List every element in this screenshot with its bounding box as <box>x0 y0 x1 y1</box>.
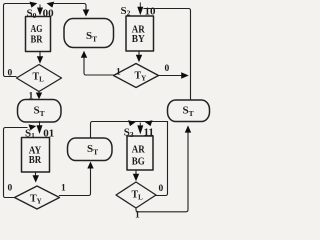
svg-text:11: 11 <box>144 127 154 139</box>
node: S0 state entry arrow <box>39 5 41 8</box>
wire: arrowhead into S0 entry (from left loop) <box>30 2 38 8</box>
wire: TL=1 down into conditional output <box>38 92 40 94</box>
wire: TY=1 right then up into bottom-middle ST <box>60 168 91 196</box>
conditional output box ST (right) <box>168 100 210 122</box>
wire: bottom-middle ST up and right to S3 entry <box>91 122 168 139</box>
node: S3 state entry arrow <box>139 123 141 126</box>
svg-text:1: 1 <box>116 68 121 78</box>
wire: top horizontal from S0 header to top-middle conditional box <box>53 4 87 11</box>
svg-text:1: 1 <box>29 92 34 102</box>
svg-text:BG: BG <box>132 156 145 168</box>
wire: S1 to TY decision <box>35 172 37 176</box>
decision diamond TL (top-left) <box>17 65 62 92</box>
decision diamond TL (bottom-right) <box>116 182 156 208</box>
svg-text:1: 1 <box>135 211 140 221</box>
node: S2 state entry arrow <box>139 3 141 7</box>
conditional output box ST (left) <box>18 100 62 123</box>
wire: S0 to TL decision <box>39 52 41 58</box>
wire: TL=0 loop right then up to S3 entry line <box>156 122 168 196</box>
state box S1 (AY BR) <box>22 138 50 173</box>
decision diamond TY (middle-right) <box>114 64 159 88</box>
svg-text:0: 0 <box>8 69 13 79</box>
svg-text:0: 0 <box>159 184 164 194</box>
svg-text:BR: BR <box>29 154 42 166</box>
svg-text:0: 0 <box>165 64 170 74</box>
svg-text:BY: BY <box>132 33 145 45</box>
wire: TL=1 down, right, up into right ST <box>136 133 188 212</box>
wire: arrowhead into S3 entry (from left) <box>128 120 136 126</box>
svg-text:01: 01 <box>43 128 54 140</box>
wire: TY=0 right into S2 loop line <box>159 75 182 77</box>
svg-text:00: 00 <box>43 8 55 20</box>
wire: S3 to TL decision <box>135 170 137 175</box>
decision diamond TY (bottom-left) <box>15 186 60 209</box>
svg-text:0: 0 <box>8 184 13 194</box>
svg-text:BR: BR <box>31 34 44 46</box>
wire: arrowhead into S3 entry (from right loop) <box>145 120 153 126</box>
label S0 00 header <box>27 8 55 21</box>
state box S3 (AR BG) <box>127 136 153 170</box>
conditional output box ST (top-middle) <box>64 19 114 48</box>
wire: S2 to TY decision <box>138 51 140 56</box>
wire: arrowhead into S1 entry (from left loop) <box>29 124 37 130</box>
label S1 01 header <box>25 128 54 141</box>
state box S0 (AG BR) <box>26 17 51 52</box>
conditional output box ST (bottom-middle) <box>68 138 113 161</box>
svg-text:10: 10 <box>145 6 157 18</box>
wire: arrowhead into S0 entry (from right wire) <box>47 2 55 8</box>
label S2 10 header <box>121 5 157 18</box>
svg-text:1: 1 <box>61 184 66 194</box>
wire: right ST up and left to S2 entry <box>144 9 191 101</box>
svg-text:AR: AR <box>132 144 146 156</box>
wire: TY=1 left then up into top-middle ST <box>84 58 114 76</box>
wire: left ST down to S1 entry <box>39 122 41 127</box>
wire: S1 self-loop (TY=0) left edge <box>4 128 28 198</box>
wire: S0 self-loop (TL=0) left edge <box>4 4 31 77</box>
state box S2 (AR BY) <box>126 16 154 51</box>
label S3 11 header <box>124 127 154 140</box>
